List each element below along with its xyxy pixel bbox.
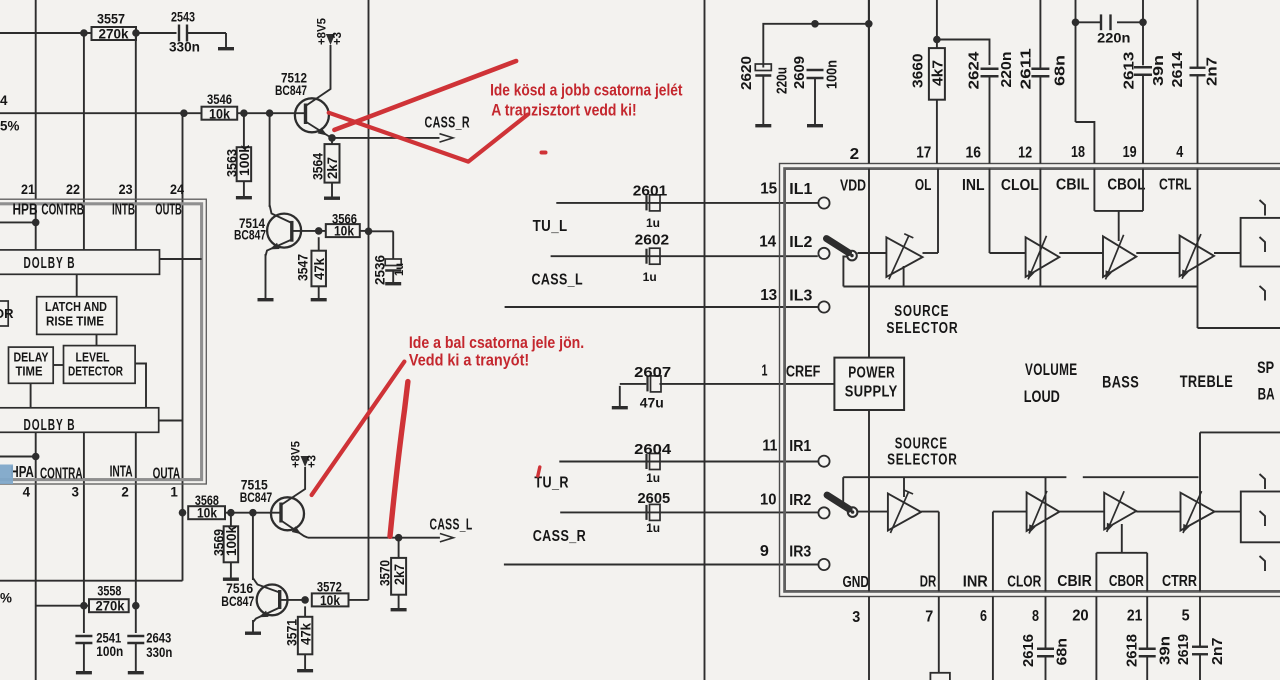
svg-text:4: 4 [0,93,8,108]
svg-text:IL2: IL2 [789,234,812,251]
svg-text:IL3: IL3 [789,288,812,305]
svg-text:2605: 2605 [638,490,671,507]
svg-text:INTB: INTB [112,202,135,219]
svg-text:10k: 10k [334,224,354,239]
svg-text:LEVEL: LEVEL [76,350,110,365]
svg-text:2607: 2607 [634,364,671,381]
svg-text:1u: 1u [394,263,406,276]
svg-text:RISE TIME: RISE TIME [46,314,104,329]
svg-text:CBIR: CBIR [1057,573,1092,590]
svg-text:10k: 10k [197,506,217,521]
svg-text:IR3: IR3 [789,544,811,561]
svg-text:2k7: 2k7 [325,157,340,179]
svg-text:SOURCE: SOURCE [895,436,948,453]
svg-text:4k7: 4k7 [930,60,947,86]
svg-text:4: 4 [1176,144,1183,161]
svg-text:3570: 3570 [378,560,393,586]
svg-text:5%: 5% [0,119,19,134]
svg-text:1: 1 [762,363,768,380]
svg-text:2k7: 2k7 [392,564,407,585]
svg-text:2n7: 2n7 [1204,57,1221,86]
svg-text:2618: 2618 [1124,634,1141,667]
svg-text:SELECTOR: SELECTOR [886,320,958,337]
svg-text:3660: 3660 [910,54,927,89]
svg-text:100k: 100k [237,144,252,176]
svg-text:SP: SP [1257,359,1274,377]
svg-text:1u: 1u [643,272,657,284]
svg-text:3564: 3564 [311,153,326,180]
svg-text:2619: 2619 [1175,634,1192,665]
svg-text:220n: 220n [998,52,1015,88]
svg-text:2614: 2614 [1169,51,1186,88]
svg-text:DETECTOR: DETECTOR [68,364,123,379]
svg-text:3546: 3546 [207,92,232,107]
svg-text:1u: 1u [646,218,660,230]
svg-text:17: 17 [916,145,931,162]
svg-text:8: 8 [1032,608,1039,625]
svg-text:CTRL: CTRL [1159,177,1192,194]
svg-text:VDD: VDD [840,178,866,195]
svg-text:20: 20 [1072,608,1089,625]
svg-text:DR: DR [920,574,937,591]
svg-text:47u: 47u [640,396,664,411]
svg-text:3571: 3571 [285,619,300,646]
svg-text:CREF: CREF [786,364,821,381]
svg-text:2n7: 2n7 [1209,638,1226,666]
svg-text:220n: 220n [1097,30,1130,46]
svg-text:3: 3 [852,609,860,626]
svg-text:VOLUME: VOLUME [1025,361,1078,379]
svg-text:BA: BA [1258,386,1275,404]
svg-text:68n: 68n [1052,55,1069,86]
svg-text:BC847: BC847 [240,490,273,505]
svg-text:19: 19 [1123,144,1137,161]
svg-text:12: 12 [1018,145,1032,162]
svg-text:+3: +3 [332,32,344,45]
svg-text:2601: 2601 [633,183,667,200]
svg-text:10k: 10k [209,106,231,121]
svg-text:7: 7 [925,609,933,626]
svg-text:1u: 1u [646,523,660,535]
svg-text:Vedd ki a tranyót!: Vedd ki a tranyót! [409,351,529,370]
svg-text:3557: 3557 [97,12,125,27]
svg-text:A tranzisztort vedd ki!: A tranzisztort vedd ki! [491,101,636,120]
svg-text:2602: 2602 [635,232,669,249]
svg-text:HPA: HPA [10,464,34,481]
svg-text:IL1: IL1 [789,181,812,198]
svg-text:18: 18 [1071,144,1085,161]
svg-text:CLOR: CLOR [1007,574,1041,591]
svg-text:LOUD: LOUD [1024,388,1060,406]
svg-text:2536: 2536 [373,255,388,285]
svg-text:270k: 270k [96,599,126,614]
svg-text:11: 11 [762,438,777,455]
svg-text:+8V5: +8V5 [317,17,329,45]
svg-text:5: 5 [1182,608,1190,625]
svg-text:21: 21 [1127,608,1143,625]
svg-text:16: 16 [966,145,982,162]
svg-text:OR: OR [0,306,14,321]
svg-text:2611: 2611 [1018,48,1035,89]
svg-text:SUPPLY: SUPPLY [845,384,898,401]
svg-text:2: 2 [850,146,860,163]
svg-text:39n: 39n [1150,55,1167,86]
svg-text:220u: 220u [774,67,791,94]
svg-text:13: 13 [760,287,777,304]
svg-text:2604: 2604 [634,441,672,458]
svg-text:INL: INL [962,177,985,194]
svg-text:OUTB: OUTB [155,202,182,219]
svg-text:TU_R: TU_R [534,475,569,492]
svg-text:1: 1 [170,485,178,500]
svg-text:+3: +3 [307,455,319,468]
svg-text:6: 6 [980,608,987,625]
svg-text:SELECTOR: SELECTOR [887,452,958,469]
svg-text:CTRR: CTRR [1162,573,1197,590]
svg-text:CBOL: CBOL [1107,177,1145,194]
svg-text:1u: 1u [646,473,660,485]
svg-text:68n: 68n [1054,638,1071,666]
svg-text:10k: 10k [320,593,340,608]
svg-text:INR: INR [963,574,989,591]
svg-text:CONTRA: CONTRA [40,466,83,483]
svg-text:47k: 47k [298,622,313,645]
svg-text:BASS: BASS [1102,374,1139,392]
svg-text:DOLBY B: DOLBY B [24,255,76,272]
svg-text:CASS_R: CASS_R [425,115,471,132]
svg-text:POWER: POWER [848,365,895,382]
svg-text:9: 9 [760,543,769,560]
svg-text:3: 3 [72,485,79,500]
svg-text:BC847: BC847 [275,83,307,98]
svg-text:2: 2 [121,485,128,500]
svg-text:100k: 100k [224,525,239,556]
svg-text:IR1: IR1 [789,438,811,455]
svg-text:CASS_R: CASS_R [533,528,587,545]
svg-text:+8V5: +8V5 [291,440,303,468]
svg-text:270k: 270k [99,27,130,42]
svg-text:10: 10 [760,492,777,509]
svg-text:BC847: BC847 [234,228,266,243]
svg-text:21: 21 [21,182,36,197]
svg-text:OUTA: OUTA [153,466,181,483]
svg-text:DOLBY B: DOLBY B [24,417,76,434]
svg-text:15: 15 [760,181,777,198]
svg-text:100n: 100n [824,60,841,89]
svg-text:330n: 330n [169,40,200,55]
svg-text:2616: 2616 [1020,634,1037,667]
svg-text:2609: 2609 [791,56,808,89]
svg-text:100n: 100n [96,644,123,659]
svg-text:2543: 2543 [171,10,195,25]
svg-text:GND: GND [843,574,870,591]
svg-text:BC847: BC847 [221,594,254,609]
svg-text:39n: 39n [1157,636,1174,665]
svg-text:47k: 47k [312,257,327,280]
svg-text:CASS_L: CASS_L [430,517,473,534]
svg-text:CBOR: CBOR [1109,573,1144,590]
svg-text:SOURCE: SOURCE [894,303,949,320]
svg-text:INTA: INTA [110,464,133,481]
svg-text:330n: 330n [146,645,172,660]
svg-text:CONTRB: CONTRB [41,202,83,219]
svg-text:2620: 2620 [738,56,755,90]
svg-text:IR2: IR2 [789,492,811,509]
svg-text:23: 23 [119,182,133,197]
svg-text:2613: 2613 [1121,52,1138,90]
svg-text:3547: 3547 [296,254,311,281]
svg-text:CBIL: CBIL [1056,177,1090,194]
svg-text:%: % [0,591,12,606]
svg-text:DELAY: DELAY [14,350,49,365]
svg-text:CLOL: CLOL [1001,177,1039,194]
svg-text:LATCH AND: LATCH AND [45,299,107,314]
svg-text:CASS_L: CASS_L [532,272,584,289]
svg-text:TU_L: TU_L [533,218,568,235]
svg-text:2643: 2643 [146,631,171,646]
svg-text:Ide kösd a jobb csatorna jelét: Ide kösd a jobb csatorna jelét [490,81,683,100]
svg-text:TREBLE: TREBLE [1180,373,1234,391]
svg-text:22: 22 [66,182,80,197]
svg-text:2624: 2624 [966,51,983,90]
svg-text:Ide a bal csatorna jele jön.: Ide a bal csatorna jele jön. [409,333,584,352]
svg-text:HPB: HPB [13,202,38,219]
svg-text:OL: OL [915,177,932,194]
svg-text:14: 14 [759,234,776,251]
svg-text:TIME: TIME [16,364,43,379]
svg-text:4: 4 [23,485,31,500]
svg-text:3558: 3558 [97,583,121,598]
svg-text:24: 24 [170,182,185,197]
